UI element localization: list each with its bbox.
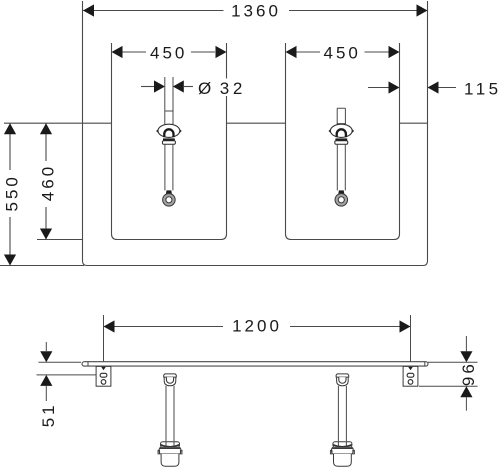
svg-text:Ø: Ø (198, 79, 211, 98)
svg-text:1360: 1360 (231, 2, 281, 21)
svg-text:1200: 1200 (232, 316, 282, 335)
svg-text:32: 32 (220, 79, 246, 98)
svg-text:550: 550 (3, 174, 22, 211)
svg-text:460: 460 (39, 164, 58, 201)
svg-text:450: 450 (324, 43, 361, 62)
svg-text:450: 450 (150, 43, 187, 62)
svg-text:115: 115 (464, 79, 500, 98)
svg-text:51: 51 (39, 402, 58, 427)
svg-text:96: 96 (459, 361, 478, 386)
